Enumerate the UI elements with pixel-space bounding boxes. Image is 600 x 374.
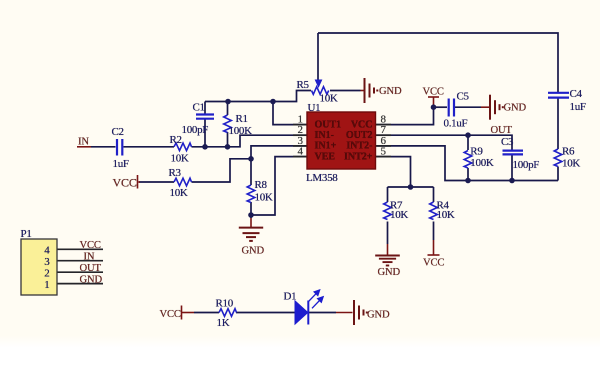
- svg-text:4: 4: [44, 245, 50, 257]
- svg-text:3: 3: [44, 256, 50, 268]
- svg-text:10K: 10K: [562, 157, 580, 169]
- svg-text:IN1-: IN1-: [315, 130, 334, 141]
- svg-text:0.1uF: 0.1uF: [444, 118, 468, 130]
- svg-text:IN: IN: [78, 136, 89, 147]
- svg-text:10K: 10K: [320, 93, 338, 105]
- svg-text:2: 2: [44, 268, 49, 280]
- svg-text:10K: 10K: [437, 209, 455, 221]
- svg-text:5: 5: [381, 146, 387, 158]
- svg-text:VCC: VCC: [423, 87, 444, 98]
- svg-text:1: 1: [44, 279, 49, 291]
- svg-text:GND: GND: [379, 86, 402, 97]
- svg-text:4: 4: [298, 146, 304, 158]
- svg-text:VCC: VCC: [80, 240, 101, 251]
- svg-text:100pF: 100pF: [513, 159, 540, 171]
- svg-text:OUT: OUT: [491, 125, 513, 136]
- svg-text:GND: GND: [80, 275, 103, 286]
- svg-text:R10: R10: [216, 298, 234, 310]
- svg-text:R8: R8: [255, 179, 268, 191]
- svg-text:10K: 10K: [255, 191, 273, 203]
- svg-text:R9: R9: [470, 145, 483, 157]
- svg-text:GND: GND: [504, 103, 527, 114]
- svg-text:100K: 100K: [470, 157, 494, 169]
- svg-text:C1: C1: [193, 102, 205, 114]
- svg-text:10K: 10K: [171, 153, 189, 165]
- svg-text:OUT: OUT: [80, 263, 102, 274]
- svg-text:100K: 100K: [229, 125, 253, 137]
- svg-text:VEE: VEE: [315, 151, 336, 162]
- svg-text:VCC: VCC: [160, 309, 181, 320]
- svg-text:GND: GND: [378, 267, 401, 278]
- svg-text:GND: GND: [367, 310, 390, 321]
- svg-text:R2: R2: [170, 134, 182, 146]
- svg-text:10K: 10K: [390, 209, 408, 221]
- svg-text:R1: R1: [236, 113, 248, 125]
- svg-text:D1: D1: [284, 291, 297, 303]
- svg-text:OUT2: OUT2: [346, 130, 373, 141]
- svg-text:VCC: VCC: [113, 176, 137, 190]
- svg-text:GND: GND: [242, 245, 265, 256]
- svg-text:U1: U1: [308, 102, 321, 114]
- svg-text:100pF: 100pF: [182, 124, 209, 136]
- svg-text:C3: C3: [501, 136, 514, 148]
- svg-text:C4: C4: [570, 88, 583, 100]
- svg-text:VCC: VCC: [351, 119, 373, 130]
- svg-text:1uF: 1uF: [113, 158, 129, 170]
- svg-text:LM358: LM358: [306, 172, 338, 184]
- svg-text:10K: 10K: [170, 187, 188, 199]
- svg-text:R6: R6: [562, 145, 575, 157]
- svg-text:INT2-: INT2-: [346, 141, 372, 152]
- svg-text:OUT1: OUT1: [315, 119, 342, 130]
- svg-text:INT2+: INT2+: [344, 151, 373, 162]
- svg-text:1K: 1K: [217, 317, 230, 329]
- svg-text:VCC: VCC: [423, 258, 444, 269]
- svg-text:R3: R3: [169, 167, 182, 179]
- svg-text:C2: C2: [112, 126, 124, 138]
- svg-text:P1: P1: [21, 228, 32, 240]
- svg-text:IN: IN: [84, 252, 95, 263]
- svg-text:R5: R5: [297, 79, 310, 91]
- svg-text:1uF: 1uF: [570, 101, 586, 113]
- svg-text:IN1+: IN1+: [315, 141, 337, 152]
- svg-text:C5: C5: [457, 91, 470, 103]
